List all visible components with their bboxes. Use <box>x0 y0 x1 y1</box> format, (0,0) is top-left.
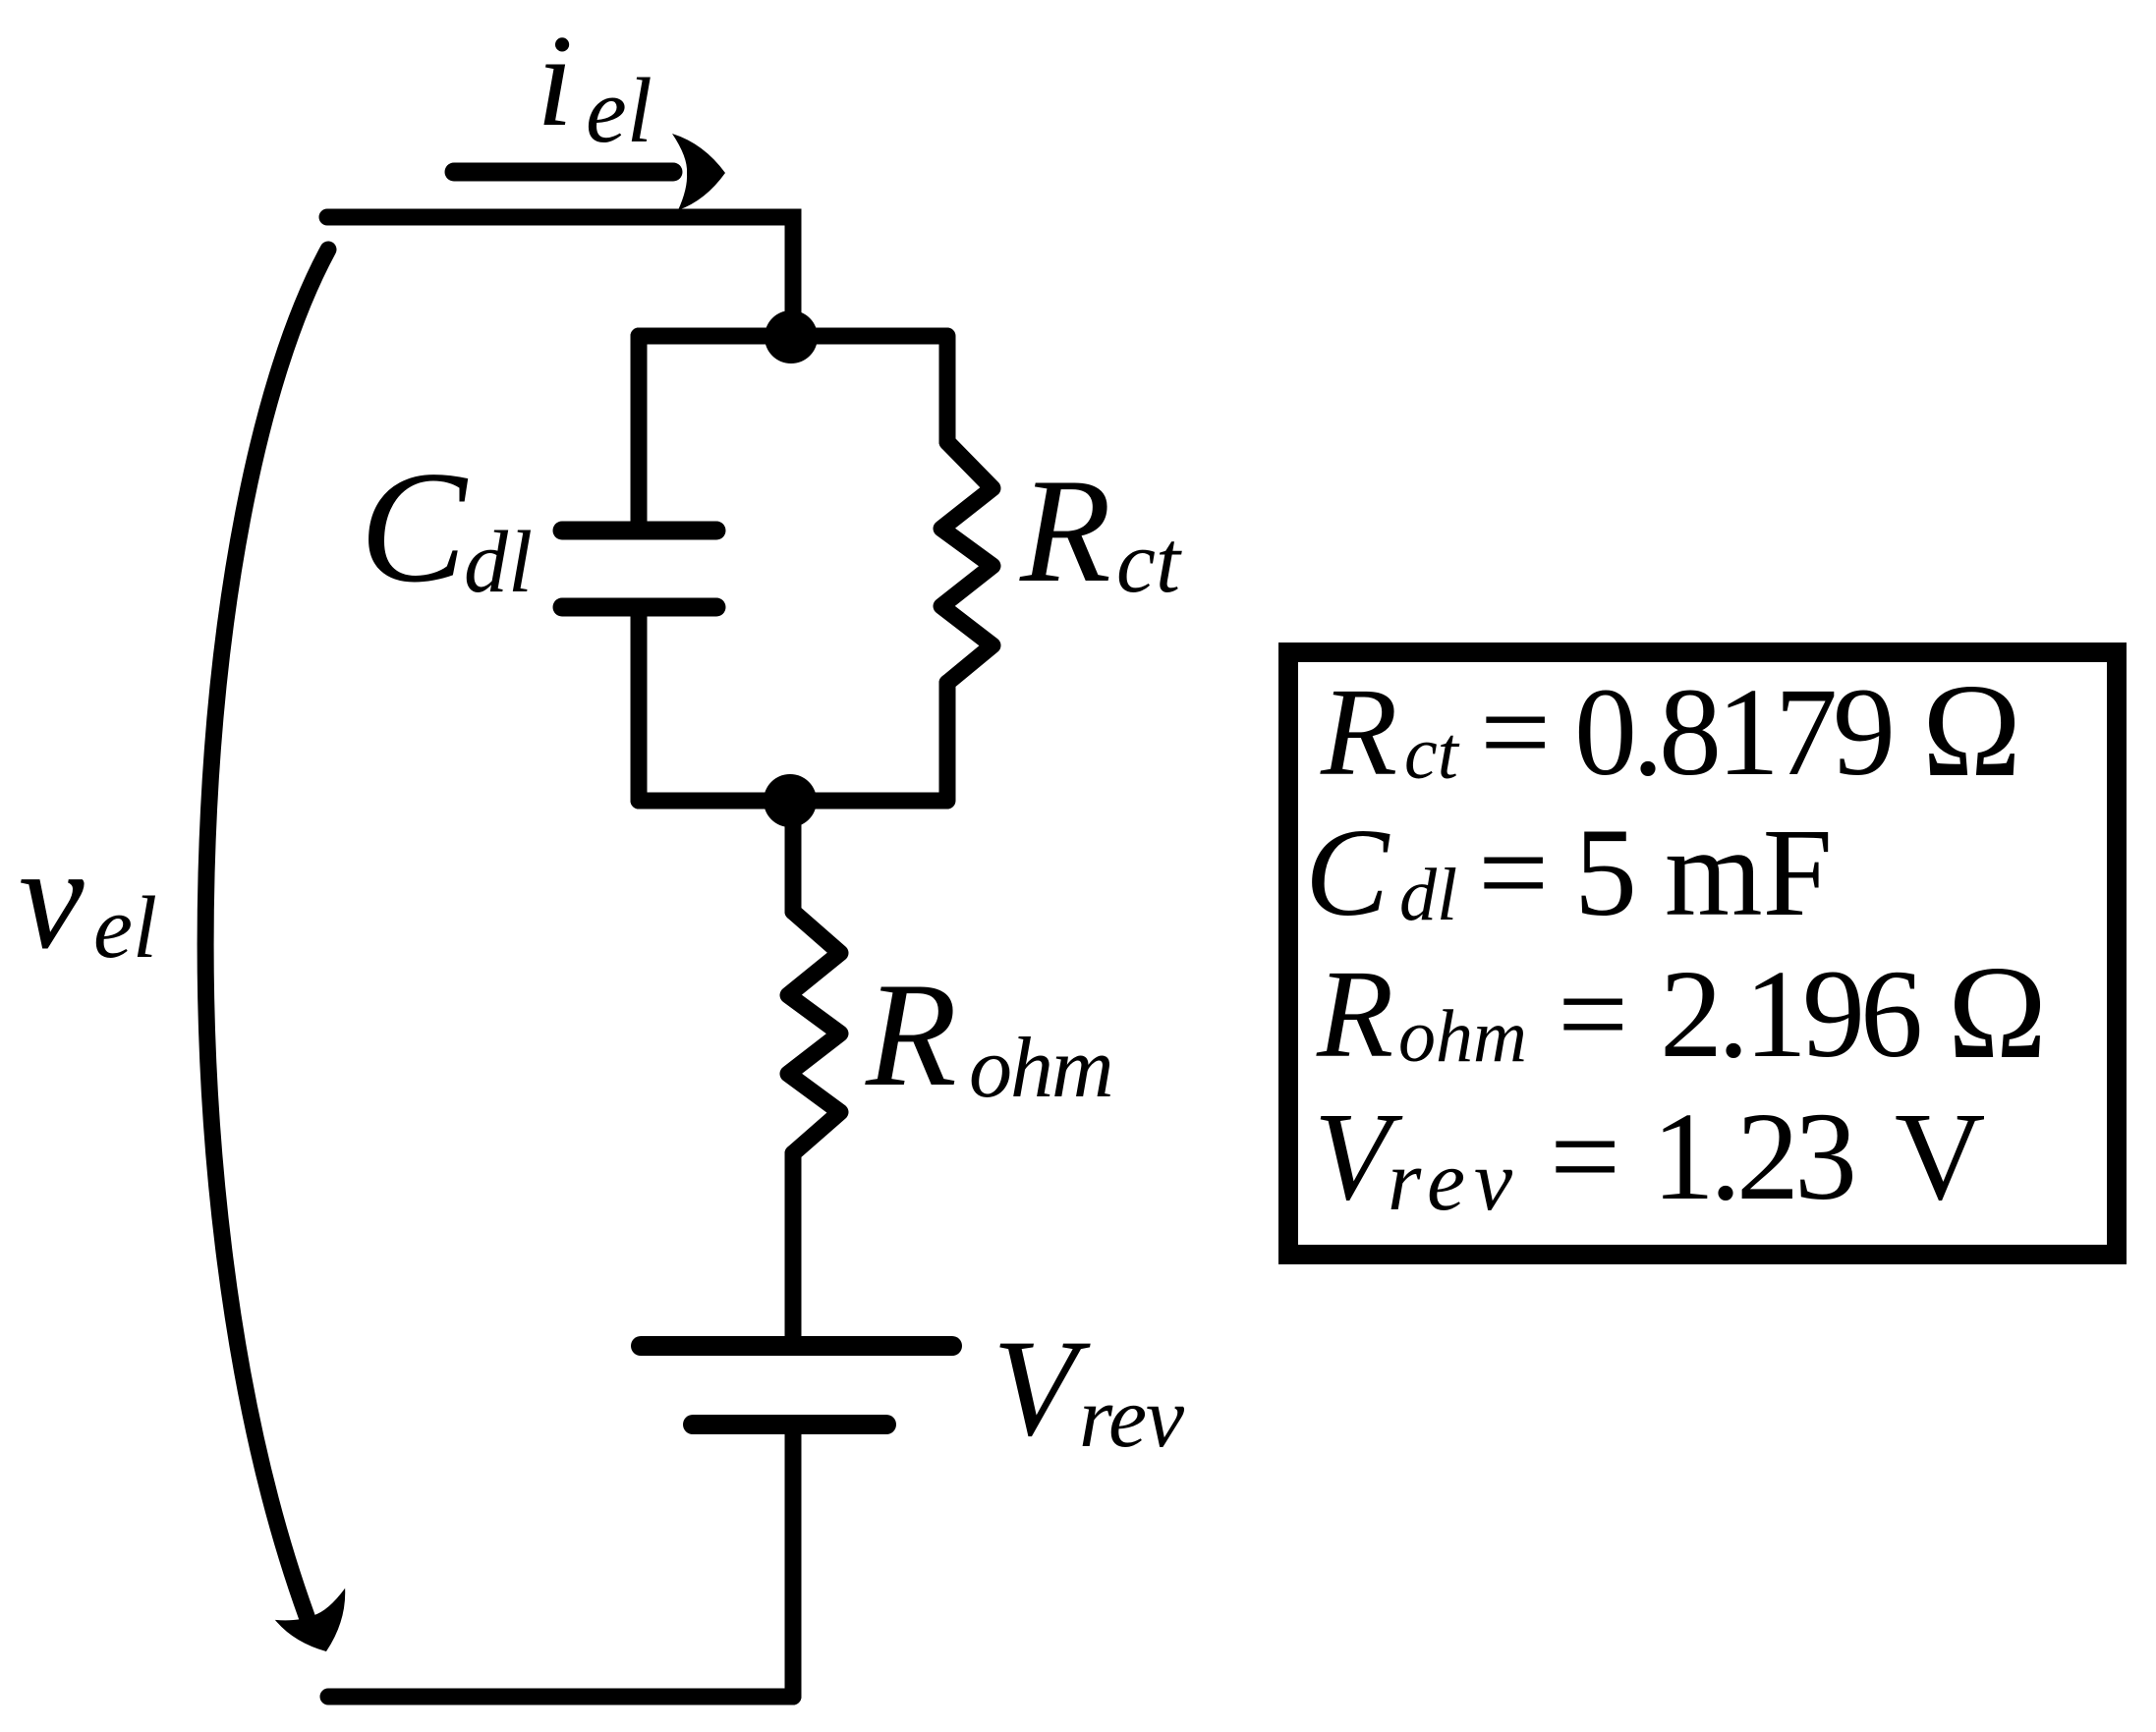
svg-text:i: i <box>537 8 573 153</box>
wire: R_ct top lead <box>939 336 956 442</box>
svg-text:ct: ct <box>1116 514 1182 611</box>
svg-text:0.8179: 0.8179 <box>1574 662 1891 802</box>
svg-text:=: = <box>1558 944 1628 1084</box>
svg-text:rev: rev <box>1388 1134 1521 1229</box>
svg-text:el: el <box>93 879 157 977</box>
wire: R_ohm to battery <box>785 1153 802 1336</box>
svg-text:Ω: Ω <box>1948 939 2047 1087</box>
svg-text:R: R <box>1019 448 1111 613</box>
wire: R_ct bottom lead <box>939 683 956 801</box>
node: bottom junction <box>764 774 817 827</box>
svg-text:V: V <box>993 1312 1091 1465</box>
svg-text:R: R <box>1316 944 1393 1084</box>
wire: battery bottom lead <box>785 1434 802 1697</box>
svg-text:V: V <box>1895 1087 1985 1226</box>
parameter box <box>1288 652 2117 1255</box>
value line Rohm = 2.196 Ohm <box>1316 939 2047 1087</box>
wire: parallel combination bottom rail <box>639 793 946 810</box>
svg-text:Ω: Ω <box>1922 657 2021 805</box>
wire: capacitor bottom lead <box>631 616 648 801</box>
svg-text:dl: dl <box>464 514 533 611</box>
svg-text:=: = <box>1550 1087 1620 1226</box>
wire: middle vertical to R_ohm <box>785 801 802 912</box>
node: top junction <box>765 310 818 363</box>
wire: capacitor top lead <box>631 336 648 522</box>
svg-text:=: = <box>1480 662 1551 802</box>
value line Vrev = 1.23 V <box>1314 1087 1985 1229</box>
value line Rct = 0.8179 Ohm <box>1320 657 2021 805</box>
svg-text:ohm: ohm <box>1398 995 1527 1078</box>
svg-text:1.23: 1.23 <box>1652 1087 1852 1226</box>
svg-text:rev: rev <box>1079 1370 1185 1466</box>
resistor R_ohm <box>788 912 840 1153</box>
svg-text:el: el <box>586 60 652 162</box>
wire: bottom rail <box>328 1689 793 1705</box>
current arrow i_el <box>454 134 725 210</box>
label R_ct <box>1019 448 1182 613</box>
label C_dl <box>360 439 533 616</box>
svg-text:=: = <box>1478 803 1549 942</box>
svg-text:C: C <box>360 439 469 616</box>
svg-text:v: v <box>19 816 85 979</box>
svg-text:2.196: 2.196 <box>1660 944 1920 1084</box>
voltage arrow v_el (arc) <box>205 250 363 1664</box>
resistor R_ct <box>941 442 993 683</box>
value line Cdl = 5 mF <box>1305 803 1833 942</box>
label i_el <box>537 8 652 162</box>
capacitor C_dl <box>562 531 716 607</box>
wire: parallel combination top rail <box>639 328 946 345</box>
wire: top (left end to corner, down to node) <box>327 217 793 337</box>
svg-text:mF: mF <box>1665 803 1833 942</box>
label V_rev <box>993 1312 1185 1466</box>
svg-text:5: 5 <box>1574 803 1637 942</box>
battery V_rev <box>641 1346 952 1425</box>
svg-text:ohm: ohm <box>969 1021 1112 1116</box>
label R_ohm <box>865 952 1112 1117</box>
svg-text:C: C <box>1305 803 1390 942</box>
svg-text:ct: ct <box>1404 712 1460 795</box>
svg-text:R: R <box>1320 662 1397 802</box>
svg-text:R: R <box>865 952 957 1117</box>
svg-text:dl: dl <box>1399 854 1457 936</box>
label v_el <box>19 816 157 979</box>
